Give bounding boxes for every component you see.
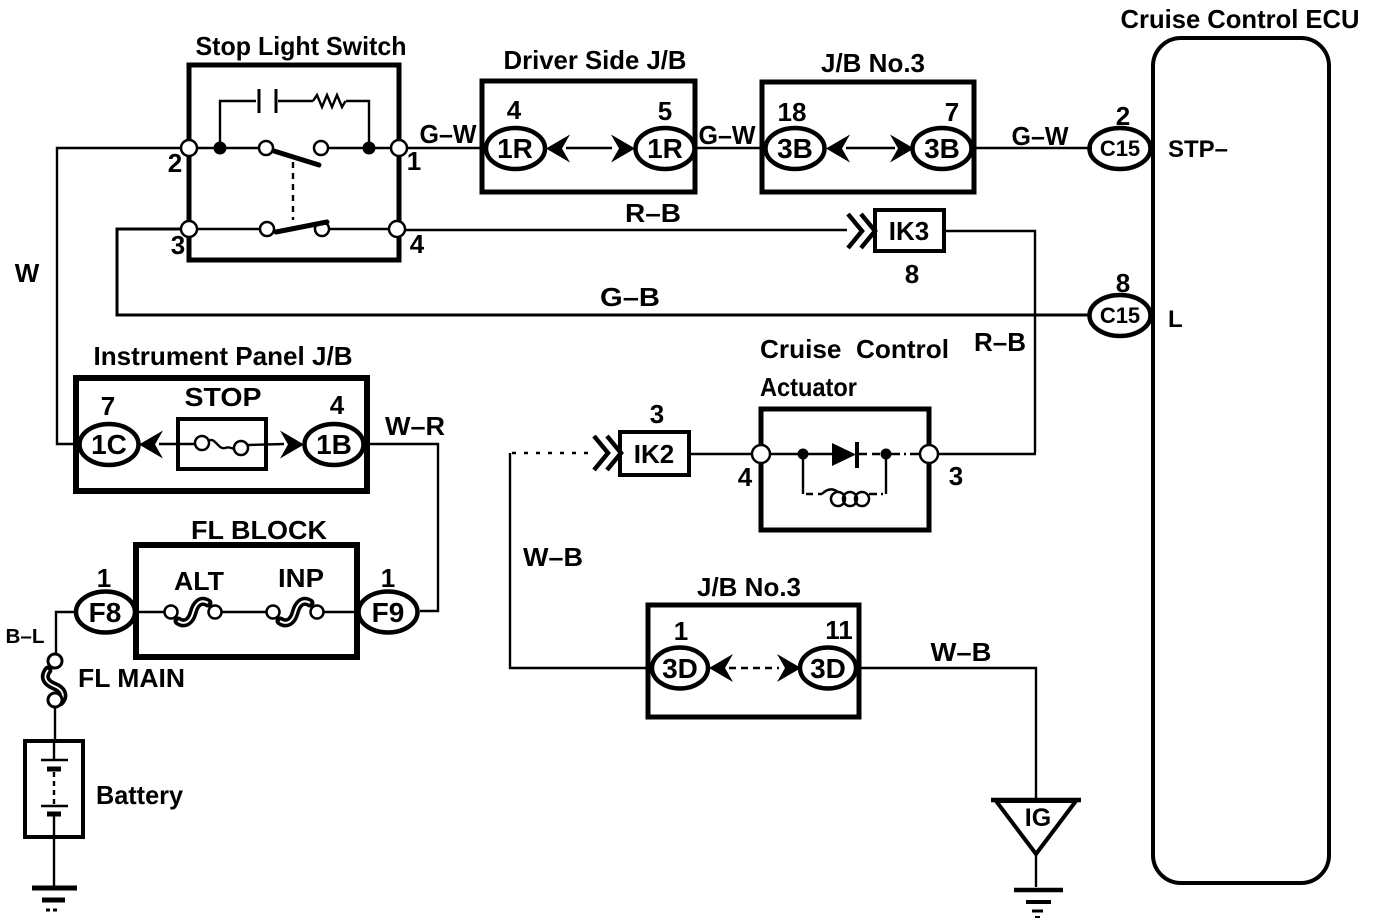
svg-text:8: 8 [905, 259, 919, 289]
switch blade row2 [276, 222, 327, 232]
connector F8 pin 1 oval [76, 592, 135, 633]
wire between 1R ovals [566, 147, 612, 149]
battery plate positive 2 [41, 805, 68, 808]
capacitor branch wire left [220, 101, 256, 148]
diode D1 cathode bar [855, 442, 859, 468]
junction dot B [363, 142, 376, 155]
wire W from pin2 to 1C [57, 148, 181, 444]
fusible link FL MAIN element [45, 670, 63, 702]
connector 1C pin 7 oval [80, 424, 139, 465]
wire INP to F9 [322, 611, 362, 613]
terminal pin 4 [389, 221, 405, 237]
svg-text:G–W: G–W [699, 120, 756, 150]
actuator terminal pin 4 [752, 445, 770, 463]
wire W-R 1B to F9 [364, 444, 438, 611]
wire dotted to IK2 [512, 452, 592, 454]
wire battery to ground [53, 837, 55, 887]
fusible link ALT contact right [209, 606, 222, 619]
svg-text:Instrument Panel J/B: Instrument Panel J/B [94, 341, 353, 371]
arrow right 1B [280, 431, 304, 459]
connector 1R pin 5 oval [636, 128, 695, 169]
wire IK3 to actuator node [944, 231, 1035, 453]
svg-text:B–L: B–L [6, 626, 45, 648]
wire row2 left segment [195, 228, 260, 230]
arrow right 3B [890, 135, 914, 163]
wire FL MAIN to battery [54, 707, 56, 741]
FL BLOCK box [136, 545, 357, 657]
terminal pin 2 [181, 140, 197, 156]
arrow left 1R [546, 135, 570, 163]
svg-text:C15: C15 [1100, 303, 1140, 328]
cruise control actuator M1 box [761, 409, 929, 530]
wire capacitor to resistor [278, 100, 313, 102]
wire ALT to INP [220, 611, 267, 613]
svg-text:1: 1 [674, 616, 688, 646]
svg-text:Driver Side J/B: Driver Side J/B [504, 45, 687, 75]
svg-text:Cruise Control ECU: Cruise Control ECU [1121, 4, 1360, 34]
terminal pin 3 [181, 221, 197, 237]
fusible link ALT contact left [165, 606, 178, 619]
svg-text:J/B No.3: J/B No.3 [697, 572, 801, 602]
wire R-B pin4 to IK3 [405, 229, 847, 231]
svg-text:4: 4 [410, 229, 425, 259]
ground G2 bar 1 [1014, 888, 1063, 893]
driver side J/B box [482, 81, 695, 192]
switch contact row1 left [259, 141, 273, 155]
svg-text:7: 7 [101, 391, 115, 421]
coil L1 loop 3 [855, 492, 869, 506]
svg-text:L: L [1168, 306, 1183, 333]
wire actuator pin3 to R-B node [938, 453, 1036, 455]
arrow right 3D [777, 654, 801, 682]
svg-text:C15: C15 [1100, 136, 1140, 161]
wire between 3B ovals [846, 147, 895, 149]
svg-text:J/B No.3: J/B No.3 [821, 48, 925, 78]
svg-text:W: W [15, 258, 40, 288]
fusible link INP element [280, 601, 310, 623]
wire row2 right segment [329, 228, 393, 230]
fuse STOP contact left [195, 436, 209, 450]
svg-text:3: 3 [949, 461, 963, 491]
connector IK3 box [875, 210, 944, 251]
coil L1 entry hump [822, 489, 838, 494]
svg-text:3D: 3D [810, 653, 846, 684]
connector IK3 chevron 1 [848, 214, 862, 248]
svg-text:W–B: W–B [523, 542, 583, 572]
connector 3D pin 1 oval [652, 648, 708, 689]
actuator terminal pin 3 [920, 445, 938, 463]
svg-text:1R: 1R [647, 133, 683, 164]
wire F8 to ALT [130, 611, 165, 613]
battery internal dashed link [53, 772, 55, 804]
svg-text:IK3: IK3 [889, 216, 929, 246]
arrow left 3B [826, 135, 850, 163]
junction dot actuator left [798, 449, 809, 460]
svg-text:STOP: STOP [185, 382, 262, 412]
svg-text:2: 2 [1116, 101, 1130, 131]
svg-text:G–W: G–W [1012, 121, 1069, 151]
coil L1 lead-out dashdot [869, 493, 886, 495]
cruise control ECU U1 box [1153, 38, 1329, 883]
connector F9 pin 1 oval [359, 592, 418, 633]
J/B No.3 bottom box [648, 605, 859, 717]
ground G2 bar 3 [1032, 910, 1043, 913]
svg-text:Battery: Battery [96, 780, 184, 810]
wire fuse to arrow [248, 444, 284, 445]
arrow left 1C [139, 431, 163, 459]
coil L1 loop 2 [843, 492, 857, 506]
wire dot to pin3 dashdot [891, 453, 922, 455]
wire diode to dot dashed [859, 453, 882, 455]
wire B-L F8 to FL MAIN [56, 612, 77, 653]
coil L1 branch right [885, 459, 887, 494]
svg-text:INP: INP [278, 563, 324, 593]
battery plate negative 2 [47, 812, 61, 817]
svg-text:8: 8 [1116, 268, 1130, 298]
fusible link ALT element [178, 601, 208, 623]
svg-text:1: 1 [381, 563, 395, 593]
fusible link INP contact right [311, 606, 324, 619]
stop light switch SW1 box [189, 65, 399, 260]
wire pin2 internal row [195, 147, 259, 149]
svg-text:1: 1 [97, 563, 111, 593]
svg-text:7: 7 [945, 97, 959, 127]
connector C15 pin 8 oval [1090, 295, 1151, 336]
svg-text:4: 4 [738, 462, 753, 492]
diode D1 triangle [832, 443, 856, 466]
capacitor C plate 1 [258, 89, 261, 113]
svg-text:W–B: W–B [931, 637, 992, 667]
junction dot A [214, 142, 227, 155]
svg-text:1R: 1R [497, 133, 533, 164]
svg-text:3: 3 [650, 399, 664, 429]
resistor R1 zigzag [313, 95, 346, 107]
svg-text:F8: F8 [89, 597, 122, 628]
connector IK2 box [620, 432, 689, 475]
wire dashed between 3D ovals [729, 667, 779, 669]
wire W-B vertical [510, 453, 653, 668]
ground G2 tail dash [1035, 916, 1040, 918]
svg-text:Stop Light Switch: Stop Light Switch [196, 31, 407, 61]
J/B No.3 top box [762, 82, 974, 192]
svg-text:5: 5 [658, 96, 672, 126]
svg-text:IG: IG [1025, 804, 1051, 832]
connector 1R pin 4 oval [486, 128, 545, 169]
svg-text:3D: 3D [662, 653, 698, 684]
svg-text:3B: 3B [924, 133, 960, 164]
svg-text:STP–: STP– [1168, 136, 1228, 163]
fusible link FL MAIN contact bottom [48, 693, 62, 707]
junction dot actuator right [881, 449, 892, 460]
svg-text:ALT: ALT [174, 566, 224, 596]
wire G-W to ECU [974, 147, 1092, 149]
instrument panel J/B box [76, 378, 367, 491]
svg-text:Cruise Control: Cruise Control [760, 334, 949, 364]
wire G-W pin1 to Driver Side JB [407, 147, 487, 149]
svg-text:1B: 1B [316, 429, 352, 460]
svg-text:R–B: R–B [625, 198, 681, 228]
switch blade row1 [274, 151, 319, 165]
svg-text:11: 11 [825, 615, 853, 645]
ground G1 bar 2 [42, 898, 65, 903]
coil L1 lead-in dashed [806, 493, 822, 495]
wire W-B 3D to IG [856, 668, 1036, 800]
fusible link INP contact left [267, 606, 280, 619]
connector 3B pin 7 oval [913, 128, 972, 169]
svg-text:W–R: W–R [385, 411, 445, 441]
connector 3B pin 18 oval [766, 128, 825, 169]
arrow left 3D [709, 654, 733, 682]
svg-text:G–W: G–W [420, 119, 477, 149]
svg-text:FL MAIN: FL MAIN [78, 663, 185, 693]
wire G-B pin3 to ECU [117, 229, 1091, 315]
wire pin4 to diode [770, 453, 832, 455]
svg-text:IK2: IK2 [634, 439, 674, 469]
connector 3D pin 11 oval [800, 648, 856, 689]
terminal pin 1 [391, 140, 407, 156]
svg-text:4: 4 [330, 390, 345, 420]
connector IK2 chevron 2 [607, 436, 621, 470]
wire resistor to dot B [346, 101, 369, 148]
battery BT1 box [25, 741, 83, 837]
ground G1 bar 1 [32, 886, 77, 891]
battery bottom lead [53, 816, 55, 837]
wire IK2 to actuator pin 4 [689, 453, 753, 455]
coil L1 loop 1 [831, 492, 845, 506]
svg-text:G–B: G–B [600, 282, 660, 312]
arrow right 1R [611, 135, 635, 163]
svg-text:4: 4 [507, 95, 522, 125]
connector IK3 chevron 2 [861, 214, 875, 248]
fusible link FL MAIN contact top [48, 654, 62, 668]
IG power symbol triangle [996, 801, 1076, 854]
connector C15 pin 2 oval [1090, 128, 1151, 169]
switch contact row2 left [260, 222, 274, 236]
svg-text:R–B: R–B [974, 327, 1026, 357]
svg-text:18: 18 [778, 97, 807, 127]
svg-text:2: 2 [168, 148, 182, 178]
wire G-W between JBs [695, 147, 766, 149]
svg-text:Actuator: Actuator [760, 372, 857, 402]
capacitor C plate 2 [275, 89, 278, 113]
svg-text:3B: 3B [777, 133, 813, 164]
wire row1 right segment [328, 147, 393, 149]
connector IK2 chevron 1 [594, 436, 608, 470]
ground G2 bar 2 [1026, 900, 1051, 904]
battery plate negative 1 [47, 767, 61, 772]
ground G1 bar 3 [46, 909, 60, 912]
svg-text:FL BLOCK: FL BLOCK [191, 515, 327, 545]
svg-text:3: 3 [171, 230, 185, 260]
wire IG to ground [1035, 854, 1037, 887]
battery top lead [53, 741, 55, 760]
svg-text:F9: F9 [372, 597, 405, 628]
wire arrow to fuse [159, 443, 196, 445]
coil L1 branch left [802, 459, 804, 494]
fuse STOP box [178, 419, 266, 469]
switch contact row2 right [315, 222, 329, 236]
switch link dashed [292, 162, 294, 220]
switch contact row1 right [314, 141, 328, 155]
fuse STOP element [208, 440, 235, 449]
connector 1B pin 4 oval [305, 424, 364, 465]
svg-text:1: 1 [407, 146, 421, 176]
battery plate positive 1 [41, 759, 68, 762]
svg-text:1C: 1C [91, 429, 127, 460]
fuse STOP contact right [234, 441, 248, 455]
